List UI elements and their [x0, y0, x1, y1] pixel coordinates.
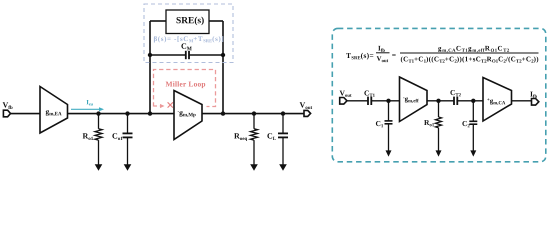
- miller loop arrow: [154, 104, 165, 108]
- op-amp U3 -gm,Mp: [174, 91, 202, 140]
- ground (CL): [279, 164, 287, 171]
- node F (CL tap): [281, 111, 285, 115]
- dashed box Miller Loop: [154, 70, 216, 107]
- terminal Vout: [300, 102, 313, 116]
- terminal Vfb: [3, 102, 13, 117]
- node E (Roeq tap): [252, 111, 256, 115]
- terminal Vout (right panel): [340, 91, 352, 105]
- capacitor C1: [376, 101, 393, 151]
- ground (Co1): [124, 164, 132, 171]
- terminal Ifb: [530, 92, 539, 106]
- formula TSRE(s): [346, 46, 538, 63]
- wire feedback left vertical: [149, 21, 151, 114]
- node B (Co1 tap): [125, 111, 129, 115]
- current arrow Iea: [71, 100, 104, 111]
- wire EA output to Mp amp input: [68, 113, 175, 115]
- miller loop X mark: [168, 102, 173, 107]
- capacitor CT1: [364, 91, 374, 105]
- resistor Ro1: [83, 114, 102, 165]
- dashed box TSRE transfer function panel: [332, 28, 546, 161]
- wire CA amp to Ifb: [512, 100, 532, 102]
- ground (C2): [470, 150, 476, 156]
- wire CT1 to eff amp: [371, 100, 399, 102]
- capacitor CT2: [450, 90, 460, 105]
- capacitor Co1: [112, 114, 132, 165]
- node H (Ro1 tap right panel): [436, 99, 440, 103]
- node CM right junction: [221, 53, 225, 57]
- ground (Roeq): [250, 164, 258, 171]
- wire Vout to CT1: [347, 100, 368, 102]
- capacitor CM: [150, 43, 223, 59]
- wire eff amp to CT2: [427, 100, 454, 102]
- wire CT2 to CA amp: [457, 100, 483, 102]
- node C (feedback left tap): [148, 111, 152, 115]
- wire Vfb to EA amp: [11, 113, 41, 115]
- wire feedback right vertical: [222, 21, 224, 114]
- node A (EA out / Ro1 tap): [96, 111, 100, 115]
- capacitor CL: [267, 114, 288, 165]
- resistor Roeq: [234, 114, 257, 165]
- ground (Ro1): [95, 164, 103, 171]
- ground (Ro1 right panel): [436, 150, 442, 156]
- dashed box beta(s) feedback network: [144, 4, 233, 63]
- node I (C2 tap): [471, 99, 475, 103]
- node CM left junction: [148, 53, 152, 57]
- capacitor C2: [462, 101, 477, 151]
- resistor Ro1 (right panel): [424, 101, 441, 151]
- node D (feedback right tap): [221, 111, 225, 115]
- wire Mp output to Vout: [202, 113, 304, 115]
- wire SRE right lead: [209, 20, 223, 22]
- node G (C1 tap): [386, 99, 390, 103]
- block U2 SRE(s): [166, 10, 209, 34]
- op-amp U5 +gm,CA: [483, 78, 512, 122]
- wire SRE left lead: [150, 20, 166, 22]
- op-amp U4 -gm,eff: [400, 77, 428, 122]
- ground (C1): [386, 150, 392, 156]
- op-amp U1 gm,EA: [40, 87, 68, 134]
